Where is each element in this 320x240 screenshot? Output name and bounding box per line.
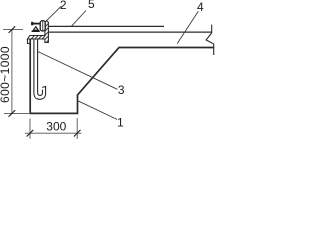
- svg-text:1: 1: [117, 116, 124, 130]
- svg-text:2: 2: [60, 0, 67, 12]
- svg-text:5: 5: [88, 0, 95, 11]
- svg-text:600~1000: 600~1000: [0, 46, 12, 103]
- svg-text:4: 4: [197, 0, 204, 14]
- svg-text:3: 3: [118, 83, 125, 97]
- svg-text:300: 300: [46, 120, 66, 134]
